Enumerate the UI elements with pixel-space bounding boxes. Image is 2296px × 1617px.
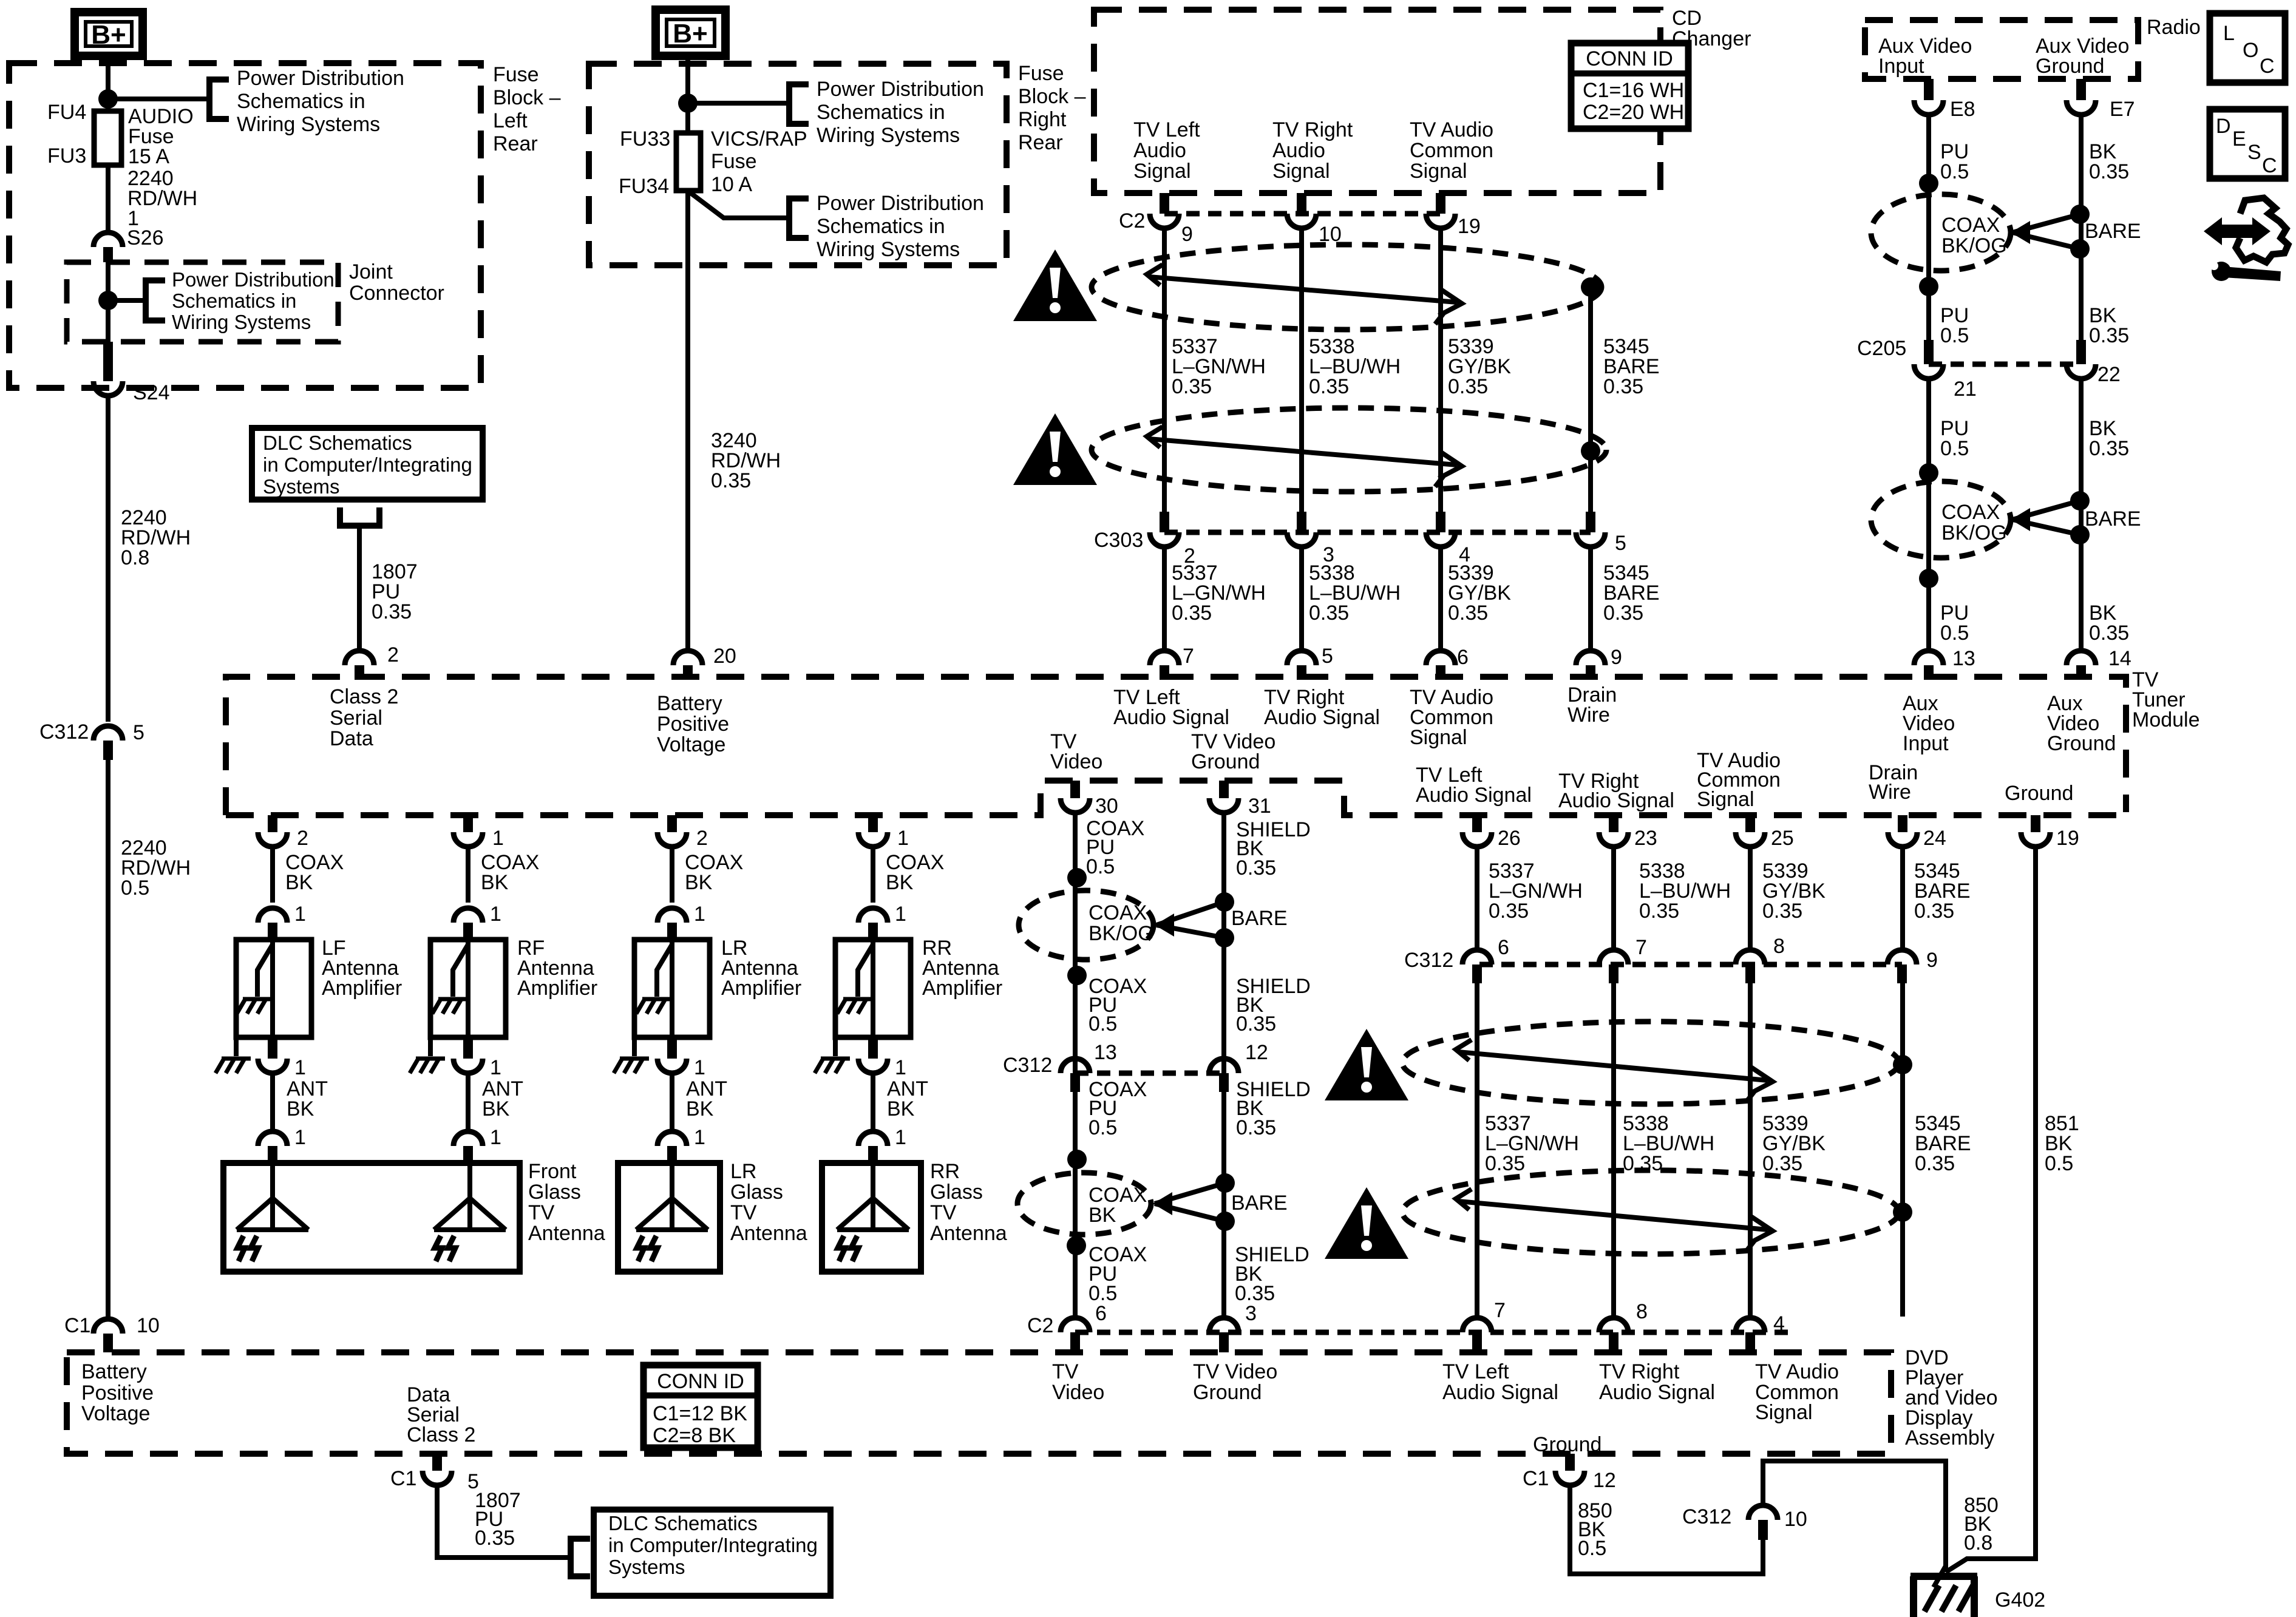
svg-text:Video: Video bbox=[1050, 750, 1102, 773]
wire 5337 to tuner bbox=[1162, 547, 1167, 649]
label 1 (glass in col1) bbox=[294, 1126, 306, 1149]
svg-text:0.35: 0.35 bbox=[1485, 1152, 1525, 1175]
wire data serial to DLC2 bbox=[437, 1485, 571, 1558]
wire E7 down segment2 bbox=[2079, 379, 2084, 649]
label 20 bbox=[713, 645, 736, 668]
node dot vg d bbox=[1215, 1212, 1235, 1231]
connector E7 bbox=[2067, 79, 2096, 115]
svg-text:TV: TV bbox=[730, 1201, 757, 1224]
label 5345 BARE 0.35 (rowA) bbox=[1603, 335, 1660, 398]
svg-text:C205: C205 bbox=[1857, 337, 1906, 360]
svg-text:BK: BK bbox=[886, 871, 914, 894]
svg-text:L: L bbox=[2223, 22, 2235, 45]
label COAX BK col2 bbox=[481, 851, 539, 894]
svg-text:Left: Left bbox=[493, 109, 528, 132]
svg-text:Power Distribution: Power Distribution bbox=[817, 78, 984, 101]
svg-text:BK: BK bbox=[285, 871, 313, 894]
wire 5338 to tuner bbox=[1299, 547, 1304, 649]
connector C312 pin 6 bbox=[1462, 950, 1492, 983]
label COAX BK/OG r1 bbox=[1941, 214, 2007, 257]
label SHIELD BK 0.35 g1 bbox=[1236, 818, 1311, 880]
svg-text:TV Video: TV Video bbox=[1193, 1360, 1277, 1383]
svg-text:5: 5 bbox=[133, 721, 144, 744]
label 23 (tuner bottom) bbox=[1634, 827, 1657, 850]
svg-text:0.35: 0.35 bbox=[1762, 900, 1802, 923]
svg-text:0.35: 0.35 bbox=[475, 1527, 515, 1550]
wire E8 down segment2 bbox=[1926, 379, 1931, 649]
svg-text:10: 10 bbox=[1784, 1508, 1807, 1531]
svg-text:DLC Schematics: DLC Schematics bbox=[608, 1512, 758, 1534]
label 850 BK 0.8 bbox=[1964, 1494, 1999, 1554]
svg-text:TV Left: TV Left bbox=[1133, 118, 1200, 141]
svg-text:Systems: Systems bbox=[263, 475, 340, 498]
label 4 (dvd) bbox=[1773, 1312, 1785, 1335]
svg-text:Fuse: Fuse bbox=[493, 63, 539, 86]
bracket to DLC2 bbox=[571, 1539, 590, 1576]
svg-text:G402: G402 bbox=[1995, 1588, 2045, 1612]
svg-text:BK/OG: BK/OG bbox=[1941, 521, 2007, 544]
label Fuse Block - Left Rear bbox=[493, 63, 561, 155]
label 25 (tuner bottom) bbox=[1771, 827, 1794, 850]
amplifier RF case ground bbox=[410, 1037, 445, 1073]
label 2240 RD/WH 0.5 bbox=[121, 836, 191, 900]
svg-text:Radio: Radio bbox=[2147, 16, 2201, 39]
label BARE r1 bbox=[2085, 220, 2141, 243]
connector glass antenna pin 1 col2 bbox=[453, 1131, 483, 1163]
svg-text:0.35: 0.35 bbox=[1172, 375, 1212, 398]
wire diagonal FU34 to bracket 2b bbox=[689, 192, 789, 218]
label 6 (C312) bbox=[1498, 936, 1509, 959]
label C312 left bbox=[39, 720, 89, 744]
svg-text:2: 2 bbox=[696, 827, 708, 850]
node dot E8 d bbox=[1919, 569, 1938, 588]
connector C303 pin 4 bbox=[1426, 532, 1455, 547]
svg-text:0.5: 0.5 bbox=[1940, 437, 1969, 460]
connector tuner pin 31 bbox=[1209, 781, 1238, 813]
svg-text:Glass: Glass bbox=[528, 1181, 581, 1204]
connector glass antenna pin 1 col1 bbox=[258, 1131, 287, 1163]
node junction at fuse top bbox=[98, 89, 118, 109]
label ANT BK col3 bbox=[686, 1077, 727, 1120]
svg-text:BARE: BARE bbox=[1231, 1192, 1288, 1215]
label C303 bbox=[1094, 529, 1143, 552]
label DLC Schematics 2 bbox=[608, 1512, 818, 1578]
svg-text:Data: Data bbox=[330, 727, 373, 750]
amplifier LF case ground bbox=[216, 1037, 251, 1073]
svg-text:DLC Schematics: DLC Schematics bbox=[263, 432, 412, 454]
node dot vg c bbox=[1215, 1173, 1235, 1193]
svg-text:0.35: 0.35 bbox=[1639, 900, 1679, 923]
label 4 (C303) bbox=[1459, 543, 1470, 566]
node junction at FU33 bbox=[678, 93, 698, 113]
connector tuner pin 9 bbox=[1576, 651, 1605, 680]
connector glass antenna pin 1 col4 bbox=[858, 1131, 888, 1163]
svg-text:RR: RR bbox=[930, 1160, 960, 1183]
wire 5339 to dvd bbox=[1748, 983, 1753, 1317]
twisted pair ellipse 2 bbox=[1092, 408, 1606, 492]
label LF Antenna Amplifier bbox=[322, 937, 402, 1000]
svg-text:6: 6 bbox=[1457, 646, 1469, 669]
svg-text:BARE: BARE bbox=[2085, 507, 2141, 531]
label 5338 L-BU/WH 0.35 (rowA) bbox=[1309, 335, 1401, 398]
label SHIELD BK 0.35 g2 bbox=[1236, 975, 1311, 1036]
label 14 (tuner) bbox=[2108, 647, 2131, 670]
node drain dot 3 bbox=[1893, 1055, 1912, 1074]
svg-text:19: 19 bbox=[1458, 215, 1481, 238]
label BK 0.35 r4 bbox=[2089, 602, 2129, 645]
label RR Glass TV Antenna bbox=[930, 1160, 1007, 1245]
wire junction to schematic bracket bbox=[108, 97, 209, 101]
label 7 (C312) bbox=[1635, 936, 1647, 959]
label TV Video Ground (dvd) bbox=[1193, 1360, 1277, 1404]
svg-text:S24: S24 bbox=[133, 381, 170, 404]
label 3 (C303) bbox=[1323, 543, 1334, 566]
label COAX PU 0.5 v3 bbox=[1089, 1078, 1147, 1139]
svg-text:Fuse: Fuse bbox=[1018, 62, 1064, 85]
svg-text:1: 1 bbox=[490, 903, 501, 926]
svg-text:5: 5 bbox=[1322, 645, 1333, 668]
label 30 bbox=[1095, 795, 1118, 818]
label 5338 L-BU/WH 0.35 (rowD) bbox=[1623, 1112, 1714, 1175]
wire E8 down segment1 bbox=[1926, 115, 1931, 364]
svg-text:1: 1 bbox=[895, 1126, 906, 1149]
label S24 bbox=[133, 381, 170, 404]
fuse FU33/FU34 VICS/RAP 10A bbox=[676, 133, 701, 191]
node drain dot 4 bbox=[1893, 1202, 1912, 1222]
antenna amplifier RR box bbox=[835, 940, 911, 1037]
label 1 (amp in col4) bbox=[895, 903, 906, 926]
connector C205 pin 22 bbox=[2067, 364, 2096, 379]
connector tuner pin 26 bbox=[1462, 815, 1492, 847]
label 1 (glass in col2) bbox=[490, 1126, 501, 1149]
glass antenna element RF bbox=[434, 1163, 506, 1261]
fuse block - right rear dashed box bbox=[589, 64, 1007, 265]
wire ant lead col1 bbox=[270, 1073, 275, 1129]
wire ant lead col4 bbox=[871, 1073, 875, 1129]
svg-text:10 A: 10 A bbox=[711, 173, 752, 196]
label 7 (tuner) bbox=[1183, 645, 1194, 668]
svg-text:TV Audio: TV Audio bbox=[1755, 1360, 1839, 1383]
wire 5338 to dvd bbox=[1611, 983, 1616, 1317]
node dot tv video b bbox=[1067, 966, 1087, 985]
wire ant lead col2 bbox=[466, 1073, 470, 1129]
label 5337 L-GN/WH 0.35 (rowD) bbox=[1485, 1112, 1579, 1175]
connector amplifier in pin 1 col2 bbox=[453, 908, 483, 940]
splice S24 bbox=[93, 342, 123, 396]
label Drain Wire (tuner bottom) bbox=[1869, 761, 1918, 804]
svg-text:E7: E7 bbox=[2110, 98, 2135, 121]
label C2 (dvd) bbox=[1027, 1314, 1053, 1337]
svg-text:VICS/RAP: VICS/RAP bbox=[711, 127, 807, 151]
connector tuner pin 5 bbox=[1287, 651, 1316, 680]
label G402 bbox=[1995, 1588, 2045, 1612]
connector tuner pin 6 bbox=[1426, 651, 1455, 680]
svg-text:3: 3 bbox=[1245, 1302, 1257, 1325]
label Ground (tuner bottom) bbox=[2005, 782, 2073, 805]
connector tuner antenna pin 2 col3 bbox=[657, 815, 687, 847]
service manual icon bbox=[2204, 198, 2288, 281]
svg-text:1: 1 bbox=[895, 903, 906, 926]
coax arrow radio 2 bbox=[2011, 508, 2030, 531]
shield drain lines video 2 bbox=[1155, 1183, 1225, 1221]
wire to bracket 2a bbox=[688, 101, 789, 106]
label 5345 BARE 0.35 (rowC) bbox=[1914, 859, 1971, 923]
connector C312 pin 10 (ground) bbox=[1748, 1505, 1778, 1540]
antenna amplifier LR box bbox=[634, 940, 710, 1037]
label 12 (video) bbox=[1245, 1041, 1268, 1064]
label C1 (pin12) bbox=[1523, 1467, 1549, 1490]
svg-text:C312: C312 bbox=[1404, 949, 1453, 972]
label TV Audio Common Signal (tuner top) bbox=[1410, 686, 1493, 749]
node dot E7 a bbox=[2070, 205, 2090, 224]
label 5338 L-BU/WH 0.35 (rowB) bbox=[1309, 561, 1401, 625]
svg-text:Audio: Audio bbox=[1272, 139, 1325, 162]
svg-text:Rear: Rear bbox=[1018, 131, 1063, 154]
svg-text:TV: TV bbox=[1052, 1360, 1079, 1383]
label Battery Positive Voltage (tuner) bbox=[657, 692, 729, 756]
wire to bracket joint bbox=[108, 298, 146, 303]
svg-text:Class 2: Class 2 bbox=[330, 685, 398, 708]
svg-text:C312: C312 bbox=[1682, 1505, 1731, 1528]
shield drain lines radio 2 bbox=[2012, 501, 2080, 535]
svg-text:1: 1 bbox=[694, 1126, 705, 1149]
connector C1 pin 12 dvd bbox=[1555, 1454, 1584, 1485]
twisted pair ellipse 1 bbox=[1092, 245, 1601, 330]
svg-text:TV Right: TV Right bbox=[1272, 118, 1353, 141]
connector amplifier in pin 1 col1 bbox=[258, 908, 287, 940]
label VICS/RAP Fuse 10 A bbox=[711, 127, 807, 196]
svg-text:19: 19 bbox=[2056, 827, 2079, 850]
label C1 left bbox=[64, 1314, 90, 1337]
svg-text:Class 2: Class 2 bbox=[407, 1423, 475, 1446]
label 6 (tuner) bbox=[1457, 646, 1469, 669]
glass antenna element RR bbox=[837, 1163, 909, 1261]
svg-text:21: 21 bbox=[1954, 378, 1977, 401]
bracket to power distribution schematics 4 bbox=[789, 198, 809, 238]
wire C312-5 down to C1-10 bbox=[106, 760, 110, 1317]
connector pin 2 class2 serial bbox=[345, 651, 374, 680]
svg-text:BK: BK bbox=[481, 871, 509, 894]
wire FU34 down to connector 20 bbox=[685, 191, 690, 649]
connector C303 pin 2 bbox=[1150, 532, 1179, 547]
glass antenna element LF bbox=[237, 1163, 308, 1261]
connector tuner pin 7 bbox=[1150, 651, 1179, 680]
svg-text:S: S bbox=[2247, 141, 2261, 164]
connector C312 pin 12 video bbox=[1209, 1059, 1238, 1092]
node dot tv video c bbox=[1067, 1150, 1087, 1169]
label C205 bbox=[1857, 337, 1906, 360]
svg-text:Video: Video bbox=[1052, 1381, 1104, 1404]
wire B+2 down bbox=[685, 56, 690, 133]
svg-text:CONN ID: CONN ID bbox=[657, 1370, 744, 1393]
label C312 (audio) bbox=[1404, 949, 1453, 972]
svg-text:Audio: Audio bbox=[1133, 139, 1186, 162]
wire 5345 to dvd bbox=[1900, 983, 1905, 1317]
label E7 bbox=[2110, 98, 2135, 121]
svg-text:0.5: 0.5 bbox=[1940, 622, 1969, 645]
connector E8 bbox=[1914, 79, 1943, 115]
label 5337 L-GN/WH 0.35 (rowB) bbox=[1172, 561, 1266, 625]
connector C205 dashed line bbox=[1929, 362, 2081, 367]
svg-text:Power Distribution: Power Distribution bbox=[172, 268, 335, 291]
svg-text:Voltage: Voltage bbox=[657, 733, 725, 756]
svg-text:1: 1 bbox=[694, 1056, 705, 1079]
svg-text:1: 1 bbox=[492, 827, 504, 850]
svg-text:2: 2 bbox=[387, 643, 399, 666]
label Aux Video Ground (radio) bbox=[2036, 35, 2129, 78]
node dot vg a bbox=[1215, 892, 1234, 912]
svg-text:C: C bbox=[2260, 55, 2275, 78]
label TV Video (tuner) bbox=[1050, 730, 1102, 773]
connector tuner antenna pin 1 col4 bbox=[858, 815, 888, 847]
node drain dot 2 bbox=[1581, 441, 1600, 461]
wire tv video ground seg1 bbox=[1221, 813, 1226, 1317]
svg-text:TV Audio: TV Audio bbox=[1410, 118, 1493, 141]
label TV Left Audio Signal (dvd) bbox=[1442, 1360, 1558, 1404]
label 1 (amp in col3) bbox=[694, 903, 705, 926]
ground G402 symbol bbox=[1911, 1566, 1977, 1617]
label PU 0.5 r3 bbox=[1940, 417, 1969, 460]
svg-text:30: 30 bbox=[1095, 795, 1118, 818]
shield drain lines video 1 bbox=[1156, 902, 1224, 938]
twist arrow 2 bbox=[1147, 427, 1462, 487]
label FU4 bbox=[47, 101, 86, 124]
label TV Left Audio Signal (tuner bottom) bbox=[1416, 764, 1532, 807]
svg-text:1: 1 bbox=[490, 1126, 501, 1149]
label 1807 PU 0.35 (upper) bbox=[372, 560, 418, 623]
label 31 bbox=[1248, 795, 1271, 818]
svg-text:TV: TV bbox=[930, 1201, 957, 1224]
svg-text:Glass: Glass bbox=[930, 1181, 983, 1204]
label 8 (dvd) bbox=[1636, 1300, 1648, 1323]
svg-text:BK: BK bbox=[482, 1097, 510, 1120]
label PU 0.5 r1 bbox=[1940, 140, 1969, 183]
svg-text:S26: S26 bbox=[127, 226, 164, 249]
label RR Antenna Amplifier bbox=[922, 937, 1002, 1000]
label BK 0.35 r2 bbox=[2089, 304, 2129, 347]
svg-text:C1=12 BK: C1=12 BK bbox=[653, 1402, 747, 1425]
svg-text:Serial: Serial bbox=[330, 707, 382, 730]
node junction joint connector bbox=[98, 291, 118, 310]
wire TV right audio (top) bbox=[1299, 228, 1304, 532]
svg-text:Joint: Joint bbox=[349, 260, 393, 283]
svg-text:7: 7 bbox=[1494, 1299, 1506, 1322]
label ANT BK col4 bbox=[887, 1077, 928, 1120]
svg-text:2: 2 bbox=[297, 827, 308, 850]
node dot tv video d bbox=[1067, 1236, 1086, 1255]
connector C2 pin 7 dvd bbox=[1462, 1318, 1492, 1352]
svg-text:22: 22 bbox=[2097, 363, 2121, 386]
svg-text:TV Right: TV Right bbox=[1599, 1360, 1680, 1383]
svg-text:Audio Signal: Audio Signal bbox=[1416, 784, 1532, 807]
label Joint Connector bbox=[349, 260, 444, 305]
svg-text:in Computer/Integrating: in Computer/Integrating bbox=[263, 453, 472, 476]
svg-text:Signal: Signal bbox=[1133, 160, 1191, 183]
label LR Antenna Amplifier bbox=[721, 937, 801, 1000]
svg-text:0.35: 0.35 bbox=[1762, 1152, 1802, 1175]
label TV Audio Common Signal (dvd) bbox=[1755, 1360, 1839, 1424]
svg-text:0.35: 0.35 bbox=[372, 600, 412, 623]
svg-text:Signal: Signal bbox=[1272, 160, 1330, 183]
label TV Audio Common Signal (tuner bottom) bbox=[1697, 749, 1781, 811]
connector tuner pin 30 bbox=[1061, 781, 1090, 813]
power symbol B+ (battery feed 2) bbox=[656, 10, 725, 56]
label TV Tuner Module bbox=[2132, 668, 2200, 731]
svg-text:5: 5 bbox=[1615, 532, 1626, 555]
wire C312-10 to G402 bbox=[1763, 1461, 1946, 1572]
connector C312 pin 8 bbox=[1736, 950, 1765, 983]
svg-text:Rear: Rear bbox=[493, 132, 538, 155]
label Front Glass TV Antenna bbox=[528, 1160, 605, 1245]
svg-text:0.35: 0.35 bbox=[1489, 900, 1529, 923]
svg-text:BK: BK bbox=[887, 1097, 915, 1120]
svg-text:Ground: Ground bbox=[1193, 1381, 1262, 1404]
label COAX BK col3 bbox=[685, 851, 743, 894]
label 2 (class2 pin) bbox=[387, 643, 399, 666]
label Power Distribution Schematics 3 bbox=[817, 78, 984, 147]
DLC schematics box 2 bbox=[594, 1510, 830, 1596]
svg-text:Assembly: Assembly bbox=[1905, 1426, 1994, 1449]
svg-text:24: 24 bbox=[1923, 827, 1946, 850]
wire inside joint connector bbox=[106, 262, 110, 342]
svg-text:Audio Signal: Audio Signal bbox=[1558, 789, 1674, 812]
label PU 0.5 r4 bbox=[1940, 602, 1969, 645]
wire 5337 tuner to C312 bbox=[1475, 847, 1479, 951]
connector tuner pin 19 bbox=[2021, 815, 2050, 847]
svg-text:13: 13 bbox=[1952, 647, 1975, 670]
label COAX PU 0.5 v2 bbox=[1089, 975, 1147, 1036]
LOC box bbox=[2210, 13, 2285, 83]
svg-text:Ground: Ground bbox=[2036, 55, 2104, 78]
svg-text:Voltage: Voltage bbox=[81, 1402, 150, 1425]
label BARE v1 bbox=[1231, 907, 1288, 930]
connector tuner pin 13 bbox=[1914, 651, 1943, 680]
connector tuner antenna pin 1 col2 bbox=[453, 815, 483, 847]
wire 5345 tuner to C312 bbox=[1900, 847, 1905, 951]
svg-text:10: 10 bbox=[137, 1314, 160, 1337]
label DLC Schematics 1 bbox=[263, 432, 472, 498]
svg-text:Ground: Ground bbox=[2005, 782, 2073, 805]
label CD Changer bbox=[1672, 7, 1751, 50]
connector C312 audio dashed line bbox=[1479, 962, 1902, 968]
svg-text:0.35: 0.35 bbox=[1623, 1152, 1663, 1175]
svg-text:E8: E8 bbox=[1950, 98, 1975, 121]
label 5338 L-BU/WH 0.35 (rowC) bbox=[1639, 859, 1731, 923]
label 1 (amp in col2) bbox=[490, 903, 501, 926]
label BARE r2 bbox=[2085, 507, 2141, 531]
wire coax antenna col1 bbox=[270, 847, 275, 903]
svg-text:Ground: Ground bbox=[1191, 750, 1260, 773]
svg-text:0.5: 0.5 bbox=[1940, 160, 1969, 183]
svg-text:0.35: 0.35 bbox=[1236, 1116, 1276, 1139]
wire dvd ground to C312-10 bbox=[1570, 1485, 1763, 1574]
svg-text:Audio Signal: Audio Signal bbox=[1442, 1381, 1558, 1404]
connector tuner pin 25 bbox=[1736, 815, 1765, 847]
svg-text:0.35: 0.35 bbox=[711, 469, 751, 492]
connector C2 pin 9 bbox=[1150, 193, 1179, 228]
svg-text:15 A: 15 A bbox=[128, 145, 169, 168]
twist arrow 1 bbox=[1147, 265, 1462, 324]
wire B+1 to fuse FU4 bbox=[106, 56, 110, 111]
label 8 (C312) bbox=[1773, 935, 1785, 958]
connector pin 20 TV tuner bbox=[673, 651, 702, 680]
svg-text:Ground: Ground bbox=[2047, 732, 2116, 755]
coax arrow radio 1 bbox=[2011, 221, 2030, 244]
svg-text:0.35: 0.35 bbox=[1603, 602, 1643, 625]
svg-text:Antenna: Antenna bbox=[528, 1222, 605, 1245]
svg-text:0.5: 0.5 bbox=[1578, 1537, 1606, 1560]
svg-text:Wire: Wire bbox=[1869, 781, 1911, 804]
